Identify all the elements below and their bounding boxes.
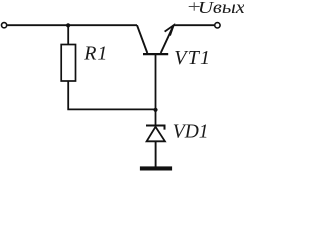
ground bar	[140, 166, 172, 170]
resistor R1 body	[61, 45, 75, 82]
transistor VT1 collector line	[137, 25, 147, 53]
junction: top rail / R1	[66, 23, 70, 27]
wire: zener anode to ground	[155, 141, 157, 167]
zener diode VD1 triangle	[147, 127, 165, 142]
wire: input terminal to collector corner (top rail)	[7, 24, 137, 26]
wire: R1 bottom lead down to corner	[68, 81, 155, 109]
wire: R1 top lead	[67, 25, 69, 44]
junction: R1 wire / base-zener node	[153, 108, 157, 112]
transistor VT1 emitter line	[161, 25, 174, 53]
zener diode VD1 cathode bar with tick	[146, 126, 165, 130]
wire: emitter to output terminal	[174, 24, 214, 26]
svg-text:VD1: VD1	[173, 122, 209, 143]
svg-text:VT1: VT1	[174, 47, 211, 69]
transistor VT1 base bar	[143, 53, 168, 55]
svg-text:R1: R1	[83, 43, 108, 65]
transistor VT1 emitter arrow	[165, 25, 174, 35]
output terminal (right)	[215, 23, 220, 28]
svg-text:вых: вых	[213, 0, 244, 17]
input terminal (left)	[2, 23, 7, 28]
wire: transistor base lead down to zener cathode	[155, 54, 157, 126]
label +Uvych	[189, 2, 200, 10]
